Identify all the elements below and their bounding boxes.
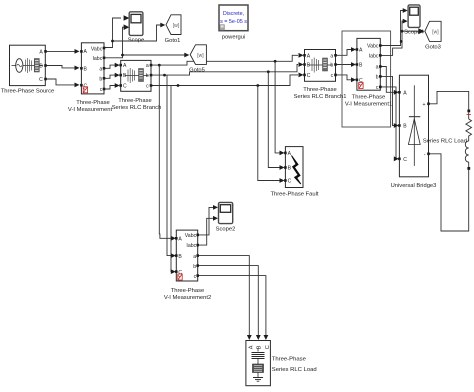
block Three-Phase V-I Measurement1 [345, 38, 392, 107]
wire V-I out b to RLC Branch B [104, 75, 116, 78]
svg-text:B: B [403, 124, 407, 130]
svg-text:A: A [248, 345, 254, 349]
svg-text:B: B [288, 166, 292, 172]
svg-text:Goto1: Goto1 [165, 38, 181, 44]
node junction dot on Iabc wire [121, 54, 124, 57]
wire tap b down to V-I Measurement2 input B [167, 75, 172, 256]
svg-text:-: - [424, 152, 426, 158]
lightning bolt icon [292, 156, 301, 185]
svg-text:Scope4: Scope4 [404, 30, 424, 36]
block Scope2 [216, 202, 236, 232]
svg-text:Vabc: Vabc [185, 233, 197, 239]
wire V-I Measurement1 c to Universal Bridge C [380, 87, 396, 159]
svg-text:Three-Phase: Three-Phase [303, 87, 337, 93]
svg-text:a: a [99, 67, 102, 73]
svg-text:C: C [307, 73, 311, 79]
svg-text:B: B [84, 67, 88, 73]
svg-text:Series RLC Load: Series RLC Load [272, 367, 317, 373]
svg-text:Three-Phase Source: Three-Phase Source [1, 89, 55, 95]
svg-text:B: B [178, 254, 182, 260]
svg-text:Scope2: Scope2 [216, 227, 236, 233]
diode icon [413, 85, 415, 166]
annotation box around V-I Measurement1 [342, 31, 391, 127]
svg-text:Goto5: Goto5 [189, 68, 205, 74]
wire bus line a from RLC Branch to RLC Branch1 [151, 55, 298, 65]
svg-text:b: b [330, 63, 333, 69]
svg-text:A: A [84, 49, 88, 55]
block Three-Phase Fault [270, 147, 318, 198]
wire tap down to Three-Phase Fault input C [258, 86, 281, 181]
wire branch from Iabc to Goto5 [123, 54, 185, 56]
svg-text:V-I Measurement2: V-I Measurement2 [164, 295, 211, 301]
svg-text:Three-Phase: Three-Phase [171, 288, 205, 294]
svg-text:V-I Measurement1: V-I Measurement1 [345, 102, 392, 108]
wire source A to V-I measurement A [46, 50, 76, 52]
block Goto5 [189, 45, 206, 74]
svg-text:powergui: powergui [222, 35, 246, 41]
wire Iabc1 from V-I Measurement1 to Scope4 input 2 [380, 21, 403, 55]
wire RLC Branch1 a to V-I Measurement1 A [336, 50, 353, 56]
wire tap a down to V-I Measurement2 input A [159, 65, 171, 238]
svg-text:Goto3: Goto3 [425, 45, 441, 51]
svg-text:c: c [194, 274, 197, 280]
wire source C to V-I measurement C [46, 79, 76, 85]
block Universal Bridge3 [391, 75, 437, 189]
svg-text:Vabc: Vabc [367, 44, 379, 50]
wire tap c down to V-I Measurement2 input C [170, 86, 173, 272]
wire bus line b from RLC Branch to RLC Branch1 [151, 65, 298, 76]
svg-text:A: A [123, 63, 127, 69]
svg-text:B: B [123, 73, 127, 79]
red marker on V-I Measurement [83, 87, 87, 93]
wire RLC Branch1 c to V-I Measurement1 C [336, 75, 353, 80]
svg-text:Three-Phase: Three-Phase [76, 100, 110, 106]
svg-text:c: c [376, 85, 379, 91]
svg-text:A: A [307, 53, 311, 59]
svg-text:[w]: [w] [432, 30, 439, 36]
svg-text:C: C [403, 157, 407, 163]
wire Vabc from V-I Measurement to Scope input 1 [104, 18, 121, 48]
wire tap down to Three-Phase Fault input A [275, 61, 280, 153]
svg-text:a: a [376, 65, 379, 71]
svg-text:[w]: [w] [197, 53, 204, 59]
block Scope4 [404, 5, 424, 36]
red marker on V-I Measurement2 [178, 274, 182, 280]
svg-text:+: + [423, 102, 426, 108]
arrowheads on wires [75, 8, 425, 340]
svg-text:[w]: [w] [173, 23, 180, 29]
svg-text:Scope: Scope [128, 38, 144, 44]
svg-text:Iabc: Iabc [369, 53, 379, 59]
svg-text:A: A [39, 50, 43, 56]
node junction dot on Vabc wire [111, 40, 114, 43]
wire V-I Measurement2 c to Three-Phase Series RLC Load C [198, 276, 266, 336]
block Goto1 [165, 15, 181, 44]
block Goto3 [425, 21, 441, 50]
wire Vabc1 from V-I Measurement1 to Scope4 input 1 [380, 11, 403, 46]
block Scope [128, 12, 144, 44]
svg-text:c: c [100, 87, 103, 93]
svg-text:a: a [193, 254, 196, 260]
node junction dots on bus for fault taps [256, 60, 276, 87]
svg-text:Vabc: Vabc [91, 46, 103, 52]
block powergui [219, 5, 248, 41]
svg-text:Iabc: Iabc [92, 56, 102, 62]
wire source B to V-I measurement B [46, 66, 76, 68]
svg-text:Universal Bridge3: Universal Bridge3 [391, 183, 437, 189]
svg-text:V-I Measurement: V-I Measurement [68, 107, 113, 113]
svg-text:C: C [39, 77, 43, 83]
wire Vabc2 from V-I Measurement2 to Scope2 input 1 [198, 207, 214, 235]
svg-text:Series RLC Branch: Series RLC Branch [112, 105, 162, 111]
svg-text:C: C [265, 345, 271, 349]
block Three-Phase Series RLC Load (bottom) [246, 341, 317, 386]
component Series RLC Load (right vertical element) [423, 110, 472, 170]
wire Iabc2 from V-I Measurement2 to Scope2 input 2 [198, 218, 214, 245]
node junction dots on bus for measurement2 taps [158, 64, 180, 87]
wire bridge minus output to Series RLC Load bottom [429, 154, 469, 231]
wire V-I Measurement1 b to Universal Bridge B [380, 76, 394, 125]
svg-text:a: a [330, 53, 333, 59]
wire branch from Iabc1 to Goto3 [402, 30, 418, 32]
wire tap down to Three-Phase Fault input B [268, 72, 280, 168]
svg-text:B: B [359, 63, 363, 69]
wire V-I out a to RLC Branch A [104, 65, 116, 68]
wire bridge plus output to Series RLC Load top [429, 91, 469, 109]
svg-text:Three-Phase: Three-Phase [272, 357, 307, 363]
svg-text:Three-Phase: Three-Phase [118, 98, 152, 104]
block Three-Phase Series RLC Branch1 [294, 50, 347, 101]
svg-text:b: b [376, 75, 379, 81]
svg-text:b: b [146, 73, 149, 79]
svg-text:B: B [307, 63, 311, 69]
red marker on V-I Measurement1 [359, 83, 363, 89]
block Three-Phase Series RLC Branch [112, 60, 162, 111]
svg-text:b: b [193, 264, 196, 270]
svg-text:Series RLC Load: Series RLC Load [423, 138, 467, 144]
svg-text:Iabc: Iabc [186, 243, 196, 249]
node junction dots on Iabc1 wire [400, 30, 404, 43]
svg-text:C: C [288, 179, 292, 185]
block Three-Phase V-I Measurement [68, 43, 113, 113]
wire bus line c from RLC Branch to RLC Branch1 [151, 75, 298, 86]
wire V-I Measurement1 a to Universal Bridge A [380, 67, 394, 93]
svg-text:Three-Phase Fault: Three-Phase Fault [270, 192, 318, 198]
wire V-I out c to RLC Branch C [104, 86, 116, 90]
svg-text:B: B [39, 64, 43, 70]
block Three-Phase Source [1, 45, 55, 94]
svg-text:a: a [146, 63, 149, 69]
svg-text:Three-Phase: Three-Phase [352, 94, 386, 100]
svg-text:s = 5e-05 s: s = 5e-05 s [220, 19, 247, 25]
svg-text:b: b [99, 77, 102, 83]
svg-text:Discrete,: Discrete, [223, 11, 245, 17]
svg-text:A: A [288, 151, 292, 157]
block Three-Phase V-I Measurement2 [164, 230, 211, 301]
wire V-I Measurement2 a to Three-Phase Series RLC Load A [198, 256, 250, 336]
wire RLC Branch1 b to V-I Measurement1 B [336, 64, 353, 66]
svg-text:A: A [178, 237, 182, 243]
wire Iabc from V-I Measurement to Scope input 2 [104, 27, 124, 58]
wire branch from Vabc to Goto1 [113, 25, 162, 41]
svg-text:A: A [403, 90, 407, 96]
svg-text:C: C [123, 84, 127, 90]
svg-text:A: A [359, 48, 363, 54]
wire V-I Measurement2 b to Three-Phase Series RLC Load B [198, 266, 259, 336]
svg-text:Series RLC Branch1: Series RLC Branch1 [294, 94, 347, 100]
